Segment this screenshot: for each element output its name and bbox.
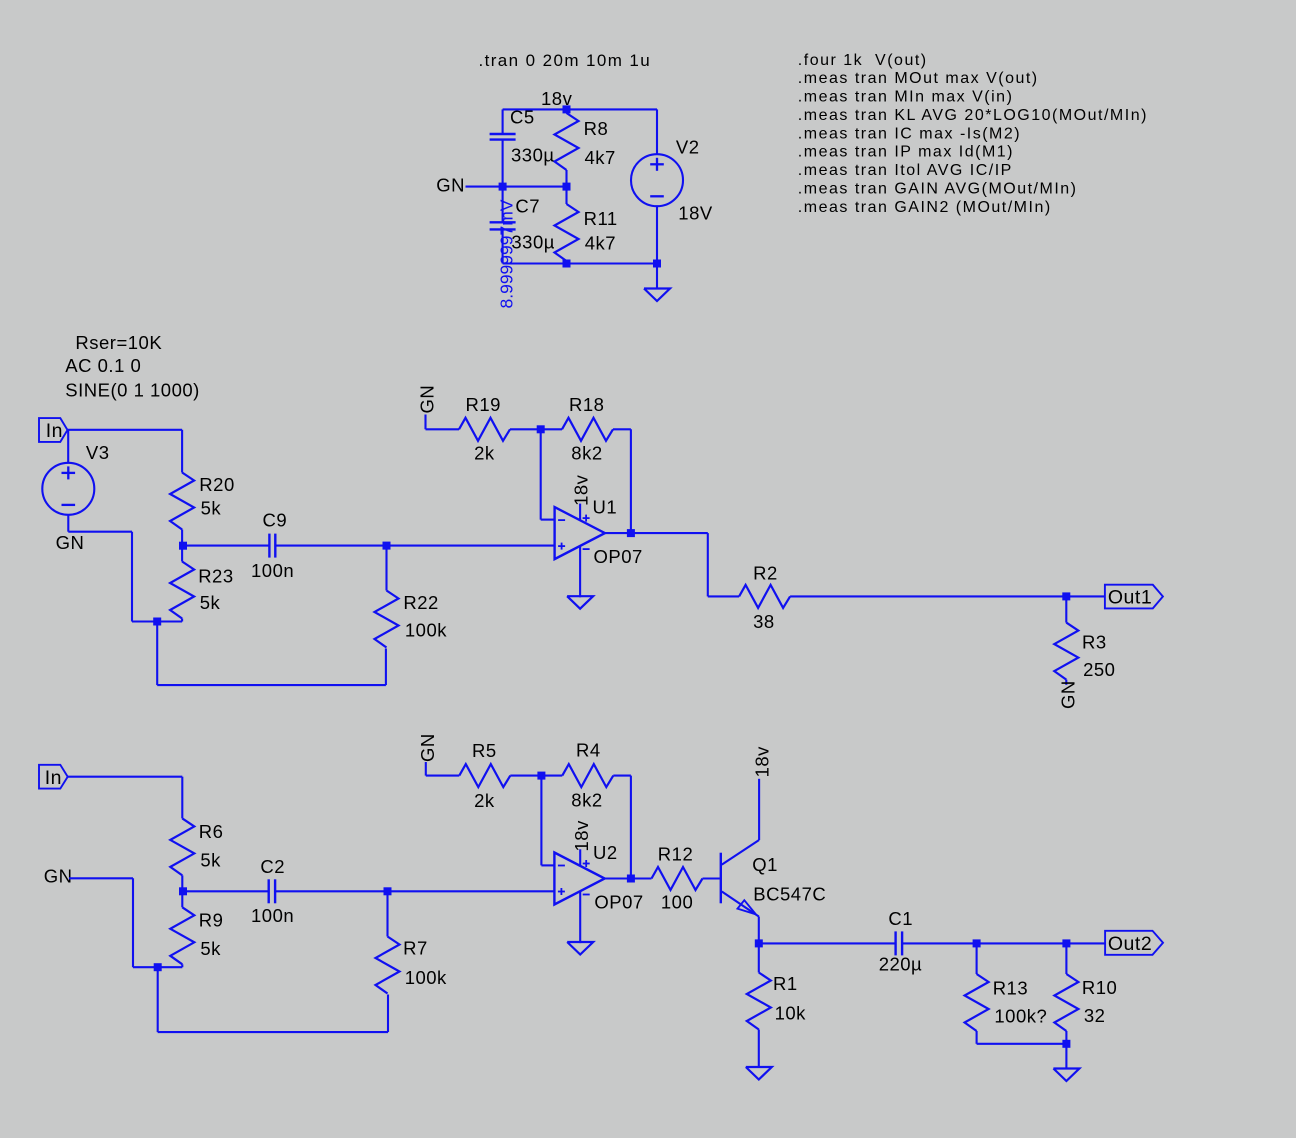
svg-text:R10: R10 [1082,977,1117,998]
svg-text:100k: 100k [405,967,447,988]
svg-text:C1: C1 [888,908,913,929]
svg-text:100k: 100k [405,620,447,641]
svg-text:GN: GN [56,532,85,553]
svg-text:SINE(0 1 1000): SINE(0 1 1000) [65,379,200,400]
svg-text:.meas tran KL AVG 20*LOG10(MOu: .meas tran KL AVG 20*LOG10(MOut/MIn) [798,107,1148,124]
svg-text:100: 100 [661,891,693,912]
svg-text:4k7: 4k7 [585,232,616,253]
svg-text:100k?: 100k? [994,1006,1047,1027]
svg-text:5k: 5k [201,498,222,519]
svg-text:.tran 0 20m 10m 1u: .tran 0 20m 10m 1u [479,51,652,70]
svg-text:R6: R6 [199,821,224,842]
svg-text:R12: R12 [658,843,693,864]
svg-text:GN: GN [436,175,465,196]
svg-text:330µ: 330µ [511,232,555,253]
svg-text:.meas tran MOut max V(out): .meas tran MOut max V(out) [798,70,1039,87]
svg-text:C5: C5 [510,107,535,128]
svg-text:18v: 18v [571,820,592,852]
svg-text:8.9999997mV: 8.9999997mV [497,199,517,308]
svg-text:.four 1k V(out): .four 1k V(out) [798,52,928,69]
svg-text:18V: 18V [678,202,713,223]
svg-text:100n: 100n [251,905,294,926]
svg-text:.meas tran GAIN AVG(MOut/MIn): .meas tran GAIN AVG(MOut/MIn) [798,180,1078,197]
svg-text:5k: 5k [200,938,221,959]
svg-text:R18: R18 [569,394,604,415]
svg-text:18v: 18v [751,746,772,778]
svg-text:U1: U1 [593,496,618,517]
svg-text:220µ: 220µ [879,954,923,975]
svg-text:C2: C2 [260,856,285,877]
svg-text:Rser=10K: Rser=10K [75,332,162,353]
svg-text:R20: R20 [199,474,234,495]
svg-text:250: 250 [1083,659,1115,680]
svg-text:In: In [45,767,62,789]
svg-text:OP07: OP07 [594,892,643,913]
svg-text:R3: R3 [1082,631,1107,652]
svg-text:18v: 18v [571,474,592,506]
svg-text:2k: 2k [474,442,495,463]
svg-text:4k7: 4k7 [585,147,616,168]
svg-text:C9: C9 [263,509,288,530]
svg-text:Q1: Q1 [752,854,778,875]
svg-text:8k2: 8k2 [571,789,602,810]
svg-text:R7: R7 [403,938,428,959]
svg-text:GN: GN [417,733,438,762]
svg-text:.meas tran GAIN2 (MOut/MIn): .meas tran GAIN2 (MOut/MIn) [798,199,1052,216]
svg-text:18v: 18v [541,88,573,109]
svg-text:OP07: OP07 [594,546,643,567]
svg-text:R13: R13 [993,977,1028,998]
svg-text:R19: R19 [466,394,501,415]
svg-text:BC547C: BC547C [753,884,826,905]
svg-text:C7: C7 [515,195,540,216]
svg-text:R8: R8 [584,118,609,139]
svg-text:V3: V3 [86,442,110,463]
svg-text:GN: GN [44,865,73,886]
svg-text:R1: R1 [773,973,798,994]
svg-text:32: 32 [1084,1005,1106,1026]
svg-text:5k: 5k [200,592,221,613]
svg-text:.meas tran IP max Id(M1): .meas tran IP max Id(M1) [798,144,1014,161]
svg-text:Out2: Out2 [1108,933,1152,955]
svg-text:R2: R2 [753,563,778,584]
svg-text:.meas tran Itol AVG IC/IP: .meas tran Itol AVG IC/IP [798,162,1013,179]
svg-text:Out1: Out1 [1108,587,1152,609]
svg-text:5k: 5k [200,850,221,871]
svg-text:.meas tran MIn max V(in): .meas tran MIn max V(in) [798,89,1014,106]
svg-text:AC 0.1 0: AC 0.1 0 [65,355,141,376]
svg-text:2k: 2k [474,790,495,811]
svg-text:R11: R11 [584,208,618,229]
svg-text:R4: R4 [576,739,601,760]
svg-text:8k2: 8k2 [571,442,602,463]
svg-text:100n: 100n [251,560,294,581]
svg-text:10k: 10k [775,1003,807,1024]
svg-text:R23: R23 [198,566,233,587]
svg-text:In: In [46,420,63,442]
svg-text:V2: V2 [676,137,700,158]
svg-text:GN: GN [417,385,438,414]
svg-text:R5: R5 [472,740,497,761]
svg-text:U2: U2 [593,842,618,863]
svg-text:330µ: 330µ [511,145,555,166]
svg-text:R9: R9 [199,910,224,931]
svg-text:38: 38 [753,611,775,632]
svg-text:.meas tran IC max -Is(M2): .meas tran IC max -Is(M2) [798,125,1021,142]
svg-text:GN: GN [1058,680,1079,709]
svg-text:R22: R22 [403,592,438,613]
